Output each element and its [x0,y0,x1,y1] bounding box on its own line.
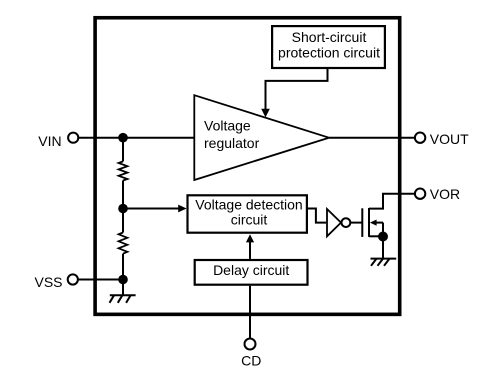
svg-text:VSS: VSS [34,274,62,290]
svg-text:circuit: circuit [231,211,268,227]
svg-text:Short-circuit: Short-circuit [292,29,367,45]
svg-text:CD: CD [241,353,261,369]
svg-text:Voltage: Voltage [204,118,251,134]
svg-text:Delay circuit: Delay circuit [213,262,289,278]
svg-text:protection circuit: protection circuit [278,44,380,60]
svg-text:Voltage detection: Voltage detection [195,197,302,213]
svg-text:VIN: VIN [38,133,61,149]
svg-text:VOUT: VOUT [430,131,469,147]
svg-text:VOR: VOR [430,186,460,202]
svg-text:regulator: regulator [204,135,260,151]
